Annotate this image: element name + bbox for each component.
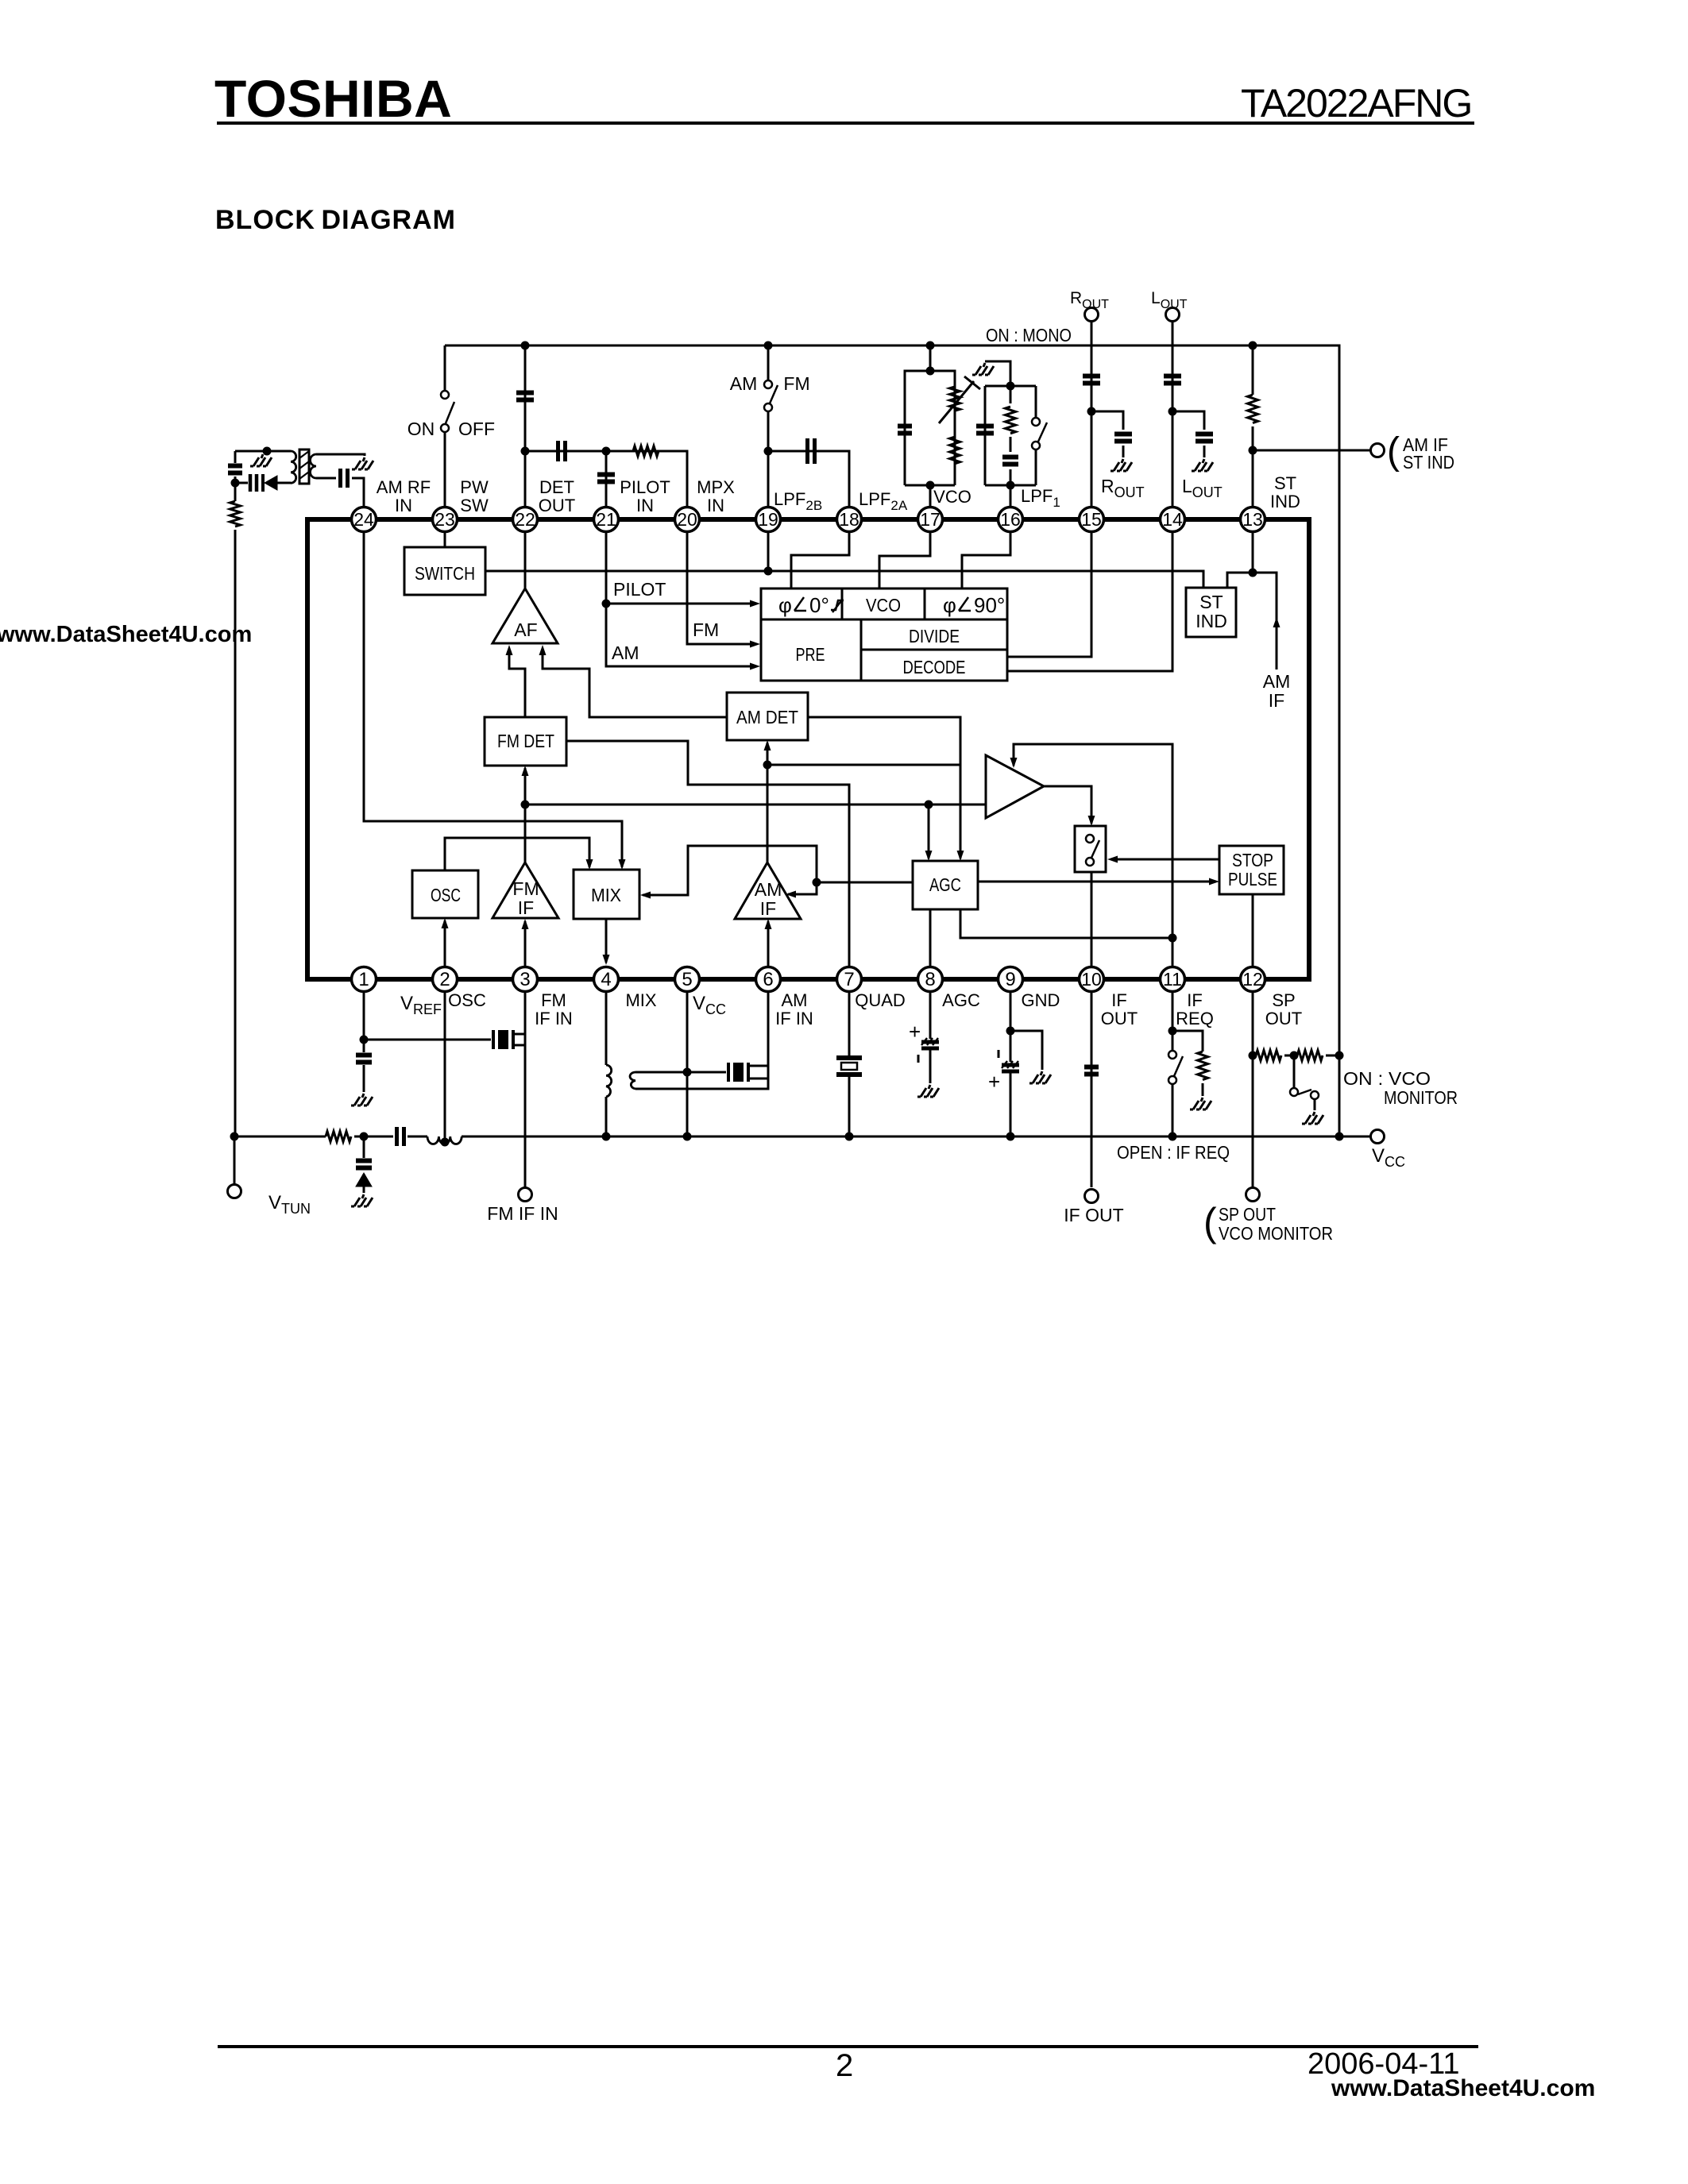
wire MIX to pin4 [605,919,608,963]
svg-text:IF IN: IF IN [775,1009,813,1028]
node vref-node [360,1036,369,1044]
wire AGC bottom to pin8 [929,909,932,967]
pin 23 [433,507,458,532]
block ST IND [1186,588,1236,637]
svg-text:ON: ON [408,419,435,439]
svg-text:5: 5 [682,969,692,990]
node amrf-top [263,447,272,456]
switch AM/FM [764,380,772,388]
block MIX [574,870,639,919]
pin 19 [756,507,781,532]
svg-text:7: 7 [844,969,854,990]
wire pin22 to rail [524,345,527,507]
wire PILOT to phase det [606,603,755,605]
op-amp AM IF [735,862,801,919]
arrow into MIX 1 [619,859,626,870]
wire FM DET to AF [509,650,525,717]
svg-text:IF: IF [518,897,534,918]
arrow into MIX right [640,892,651,899]
inductor T1 secondary [311,454,316,478]
svg-text:PULSE: PULSE [1228,869,1277,889]
svg-text:90°: 90° [974,593,1005,617]
resistor R-vco [950,437,960,464]
svg-text:QUAD: QUAD [855,990,906,1010]
svg-text:8: 8 [925,969,935,990]
svg-text:VCO: VCO [866,595,901,615]
wire pin11 [1172,992,1174,1031]
wire secondary top [635,1071,726,1074]
svg-text:(: ( [1203,1200,1217,1244]
node spout-node [1249,1051,1257,1060]
svg-text:PILOT: PILOT [613,579,666,600]
capacitor C-vco [898,426,912,434]
arrow into mono switch [1088,816,1095,826]
wire pin20 FM to PRE [687,532,755,644]
inductor T2 secondary [630,1072,635,1089]
capacitor C-agc electrolytic [921,1040,939,1044]
svg-text:AM: AM [755,879,782,900]
capacitor C-varactor [356,1161,372,1168]
svg-text:AGC: AGC [929,874,961,895]
svg-text:AM DET: AM DET [736,707,798,727]
arrow FM into PRE [750,641,760,648]
node amrf-mid [231,479,240,488]
wire cap-diode branch [235,482,248,484]
wire pin21 PILOT/AM [606,532,755,666]
block FM DET [485,717,566,766]
svg-text:IN: IN [707,496,724,515]
svg-text:IF: IF [1187,990,1203,1010]
svg-text:TA2022AFNG: TA2022AFNG [1241,81,1471,125]
ground varactor [351,1194,373,1206]
pin 7 [837,967,862,992]
arrow into MIX 2 [586,859,593,870]
wire AM DET audio to AF [543,650,727,717]
node sec-top-node [683,1068,692,1077]
node vco-top [926,367,935,376]
wire pin24 to MIX [364,532,622,867]
node switch-wire pin19 [764,567,773,576]
resistor trimmer zigzag [950,387,960,411]
arrow into AGC 1 [925,851,933,861]
svg-text:OSC: OSC [431,885,461,905]
node rail-p5 [683,1133,692,1141]
ground pin9 [1029,1071,1051,1083]
terminal V TUN [228,1185,241,1198]
wire pin23 to SWITCH [444,532,446,547]
wire pin1 Vref [363,992,365,1040]
node rail-22 [521,341,530,350]
node fmif-node [521,801,530,809]
wire pin17 to VCO cell [879,532,930,588]
node ifreq-node [1168,934,1177,943]
svg-text:REQ: REQ [1176,1009,1214,1028]
svg-text:GND: GND [1022,990,1060,1010]
pin 4 [594,967,619,992]
capacitor C-pilot [597,475,615,482]
wire pin22 to AF [524,532,527,588]
svg-text:AM: AM [782,990,808,1010]
wire comparator out to mono switch [1044,786,1091,824]
wire pin10 to IF OUT [1091,992,1093,1187]
pin 9 [999,967,1023,992]
wire pin4 down [605,992,608,1065]
wire pin2 to OSC [444,920,446,967]
wire FM IF amp to FM DET [524,768,527,862]
pin 21 [594,507,619,532]
svg-text:ON : MONO: ON : MONO [986,325,1072,345]
svg-text:AM: AM [1263,671,1291,692]
svg-text:10: 10 [1081,969,1102,990]
wire LPF1 box [985,386,1036,507]
capacitor C-amrf1 [228,466,242,473]
wire pin3 to FM IF [524,921,527,967]
svg-text:FM: FM [693,619,719,640]
svg-text:13: 13 [1242,509,1263,530]
resistor LPF1 (middle leg masked) [1002,403,1020,473]
wire pin7 resonator [848,992,851,1136]
wire secondary top to ground [316,454,365,456]
wire pin11 resistor branch [1172,1031,1203,1096]
comparator amp [986,755,1044,818]
switch PW SW [441,391,449,399]
wire pin6 to AM IF [767,921,770,967]
capacitor C-det-top [516,393,534,400]
block AGC [913,861,978,909]
pin 13 [1241,507,1265,532]
svg-text:STOP: STOP [1232,850,1273,870]
op-amp FM IF [492,862,558,918]
svg-text:ON : VCO: ON : VCO [1343,1068,1431,1089]
svg-text:MPX: MPX [697,477,735,497]
ground AM RF top [250,454,272,466]
svg-text:IND: IND [1196,611,1227,631]
diode varactor [356,1173,372,1187]
svg-text:14: 14 [1162,509,1183,530]
node rout-junction [1087,407,1096,416]
wire pin23 to power switch [444,345,446,507]
block PLL group [761,588,1007,681]
pin 17 [918,507,943,532]
transformer core T1 [299,450,309,484]
pin 24 [352,507,377,532]
wire FM IF out to comparator [525,804,986,806]
svg-text:18: 18 [839,509,859,530]
wire stop pulse to pin12 [1252,894,1254,967]
resistor R-amrf [230,501,241,527]
node vtun-node [230,1133,239,1141]
terminal R OUT [1085,308,1099,322]
wire pin9 electrolytic to rail [1010,1031,1012,1136]
wire pin3 to FM IF IN [524,992,527,1187]
svg-text:AM: AM [612,642,639,663]
svg-text:3: 3 [520,969,530,990]
resistor R-ifreq [1198,1051,1208,1080]
wire mono switch to pin10 [1091,872,1093,967]
arrow into FM DET [522,766,529,776]
svg-text:15: 15 [1081,509,1102,530]
svg-text:FM DET: FM DET [497,731,554,751]
wire AGC to stop pulse [978,881,1216,883]
wire pin13 to ST IND [1252,532,1254,573]
terminal L OUT [1166,308,1180,322]
svg-text:FM: FM [783,373,809,394]
wire pilot cap to pin21 [605,451,608,507]
wire pin11 [1172,938,1174,967]
svg-text:OSC: OSC [448,990,486,1010]
svg-text:MIX: MIX [591,885,621,905]
svg-text:FM: FM [541,990,566,1010]
arrow into AGC 2 [957,851,964,861]
wire top rail ON:MONO [445,345,1339,1136]
wire AM IF to AM DET [767,743,769,862]
svg-text:AGC: AGC [942,990,980,1010]
crystal X-osc [492,1030,495,1049]
wire top link [235,450,291,453]
svg-text:FM IF IN: FM IF IN [487,1203,558,1224]
node vcomon-right [1335,1051,1344,1060]
arrow into OSC [442,918,449,928]
wire SWITCH output to ST IND [485,571,1203,588]
arrow into mono switch right [1107,856,1118,863]
wire pin18 to phase det [791,532,849,588]
node lpf1-bot [1006,481,1015,490]
svg-text:0°: 0° [809,593,829,617]
ground pin8 [917,1085,939,1097]
pin 15 [1080,507,1104,532]
wire vref to crystal [364,1039,491,1041]
resistor R-lpf1 [1006,407,1016,434]
node rail-p11 [1168,1133,1177,1141]
svg-text:IF: IF [760,898,776,919]
pin 14 [1161,507,1185,532]
terminal IF OUT [1085,1190,1099,1203]
svg-text:IF: IF [1111,990,1127,1010]
capacitor C-lpf2b [808,438,815,464]
terminal FM IF IN [519,1188,532,1202]
node det-junction [521,447,530,456]
resistor R-mpx [633,446,659,457]
ground Vref [351,1094,373,1106]
svg-text:20: 20 [677,509,697,530]
node rail-right [1335,1133,1344,1141]
svg-text:www.DataSheet4U.com: www.DataSheet4U.com [0,622,252,647]
pin 12 [1241,967,1265,992]
wire AM DET out to AGC [808,717,960,859]
node lout-junction [1168,407,1177,416]
wire bottom Vcc rail [234,1136,1371,1138]
wire pin2 below [444,992,446,1142]
inductor T1 primary [291,451,296,483]
svg-text:11: 11 [1163,969,1182,990]
pin 11 [1161,967,1185,992]
svg-text:MONITOR: MONITOR [1384,1087,1458,1108]
pin 18 [837,507,862,532]
wire pin15 to DIVIDE/DECODE [1007,532,1091,657]
svg-text:IN: IN [636,496,654,515]
svg-text:2: 2 [836,2048,853,2083]
pin 20 [675,507,700,532]
capacitor C-rout-gnd [1114,434,1132,442]
crystal X-am [727,1063,730,1082]
svg-text:PRE: PRE [796,644,825,665]
arrow into STOP PULSE [1209,878,1219,886]
svg-text:TOSHIBA: TOSHIBA [214,69,452,128]
arrow into AM IF right [786,891,796,898]
svg-text:24: 24 [353,509,374,530]
svg-text:PW: PW [460,477,489,497]
pin 6 [756,967,781,992]
arrow AM IF up [1273,617,1280,627]
node varactor-node [360,1133,369,1141]
wire R OUT bypass [1091,411,1123,430]
svg-text:17: 17 [920,509,941,530]
svg-text:+: + [909,1020,921,1044]
wire stop pulse to mono switch [1111,859,1219,861]
svg-text:ST: ST [1199,592,1223,612]
ground R OUT [1111,459,1132,471]
svg-text:4: 4 [601,969,611,990]
node lpf1-top [1006,382,1015,391]
pin 2 [433,967,458,992]
svg-text:www.DataSheet4U.com: www.DataSheet4U.com [1331,2075,1595,2101]
arrow FM det into AF [506,645,513,655]
resistor R-vcomon2 [1297,1051,1323,1061]
switch IF REQ [1172,1031,1174,1136]
pin 22 [513,507,538,532]
pin 3 [513,967,538,992]
wire V TUN [234,1136,236,1184]
capacitor C-lpf1b [1002,457,1018,465]
inductor T2 primary [606,1065,612,1097]
svg-text:BLOCK DIAGRAM: BLOCK DIAGRAM [215,205,456,235]
arrow AM det into AF [539,645,547,655]
wire pin13 resistor to rail [1252,345,1254,507]
footer rule [218,2045,1478,2048]
svg-text:22: 22 [515,509,535,530]
svg-text:SW: SW [460,496,489,515]
node rail-p4 [602,1133,611,1141]
wire vref bypass [363,1040,365,1092]
svg-text:ST IND: ST IND [1403,452,1454,473]
svg-text:SP OUT: SP OUT [1219,1204,1276,1225]
svg-text:12: 12 [1242,969,1263,990]
svg-text:19: 19 [758,509,778,530]
svg-text:VCO MONITOR: VCO MONITOR [1219,1223,1333,1244]
capacitor C-amrf3 [341,469,348,488]
arrow into pin4 [603,955,610,965]
arrow PILOT into phase det [750,600,760,608]
IC body outline [307,519,1309,979]
svg-text:IF IN: IF IN [535,1009,573,1028]
wire AGC out to pin11 node [960,909,1172,938]
op-amp AF [492,588,558,643]
node gnd-node [1006,1027,1015,1036]
wire VCO net bottom [905,485,955,507]
wire to AM IF / ST IND terminal [1253,450,1371,452]
svg-text:AF: AF [514,619,537,640]
svg-text:OUT: OUT [539,496,575,515]
ground AM RF right [352,457,373,469]
svg-text:21: 21 [596,509,616,530]
node coil-tap [441,1138,450,1147]
node vco-bot [926,481,935,490]
pin 1 [352,967,377,992]
svg-text:VCO: VCO [933,487,971,507]
capacitor C-rail [397,1127,404,1146]
svg-text:IN: IN [395,496,412,515]
svg-text:9: 9 [1005,969,1015,990]
arrow into comparator top [1010,758,1018,768]
node rail-19 [764,341,773,350]
switch VCO MONITOR [1293,1055,1296,1087]
svg-text:OPEN : IF REQ: OPEN : IF REQ [1117,1142,1230,1163]
svg-text:DIVIDE: DIVIDE [909,626,960,646]
svg-text:IF OUT: IF OUT [1064,1205,1123,1225]
svg-text:23: 23 [435,509,455,530]
arrow into AM IF [765,919,772,929]
svg-text:φ: φ [943,593,956,617]
node vcomon-mid [1290,1051,1299,1060]
wire pin19 stub [767,532,770,571]
svg-text:OFF: OFF [458,419,495,439]
wire FM DET to pin7 [566,741,849,967]
block AM DET [727,693,808,740]
block OSC [412,870,478,918]
terminal SP OUT [1246,1188,1260,1202]
svg-text:2: 2 [439,969,450,990]
wire pin4 primary to rail [605,1097,608,1136]
wire pin6 down [635,992,768,1089]
wire left column top [234,451,237,1136]
terminal R OUT [1091,321,1093,507]
arrow into FM IF [522,919,529,929]
wire OSC to MIX [445,838,589,870]
wire pin9 [1010,992,1012,1031]
arrow AM into PRE [750,663,760,670]
capacitor C-det-series [558,441,566,461]
svg-text:FM: FM [512,878,539,899]
wire AGC control loop [643,846,817,895]
wire AM det node to AGC column [767,764,960,766]
wire pin9 to ground [1010,1031,1042,1070]
wire AM IF signal to pin13 [1253,573,1277,669]
wire pin16 to phase90 cell [962,532,1010,588]
svg-text:PILOT: PILOT [620,477,670,497]
inductor L-osc on rail [427,1136,462,1144]
resistor R-tun [326,1132,351,1142]
capacitor C-rout-series [1083,376,1100,384]
svg-text:16: 16 [1000,509,1021,530]
node amdet-in-node [763,761,772,770]
capacitor C-vref [356,1055,372,1063]
svg-text:OUT: OUT [1101,1009,1138,1028]
svg-text:1: 1 [358,969,369,990]
ground L OUT [1192,459,1213,471]
block STOP PULSE [1219,846,1284,894]
switch LPF1 [1032,418,1040,426]
ground IF REQ [1190,1098,1211,1109]
node rail-13 [1249,341,1257,350]
svg-text:(: ( [1387,430,1400,473]
wire comparator feedback [1014,744,1172,938]
svg-text:DECODE: DECODE [903,657,966,677]
wire rail to AM/FM switch [767,345,770,507]
wire varactor branch [363,1136,365,1193]
resonator X-quad [836,1055,862,1060]
capacitor C-lout-gnd [1196,434,1213,442]
node ifreq-ext-node [1168,1027,1177,1036]
